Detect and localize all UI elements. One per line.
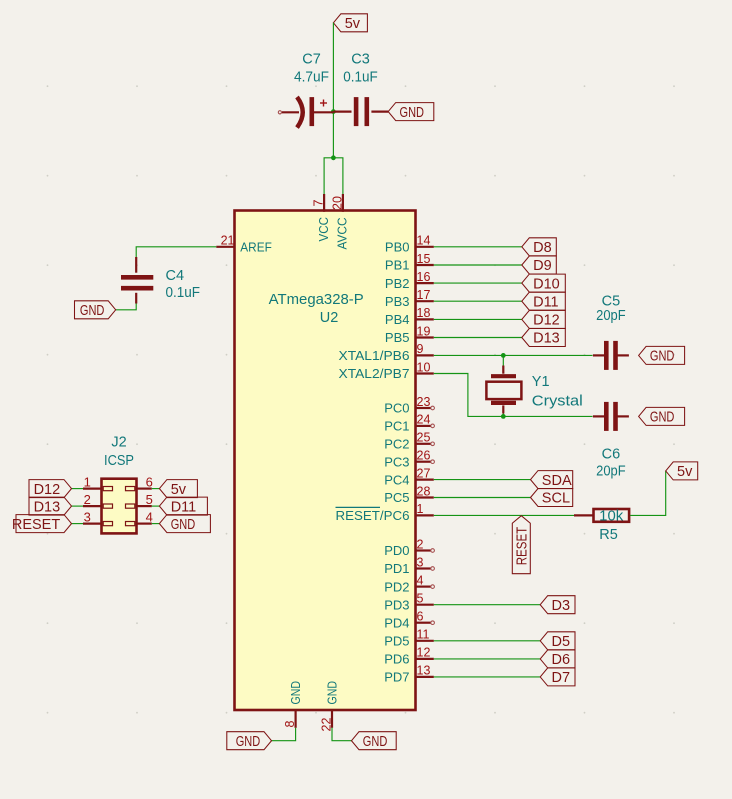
- svg-text:GND: GND: [324, 681, 339, 705]
- svg-text:25: 25: [417, 431, 431, 445]
- svg-text:18: 18: [417, 306, 431, 320]
- wire PB0 to D8: [434, 246, 522, 248]
- svg-text:SDA: SDA: [542, 473, 572, 489]
- global label D8: [522, 238, 557, 256]
- svg-text:GND: GND: [363, 734, 388, 750]
- svg-text:D5: D5: [552, 634, 571, 650]
- pin 12 PD6: [384, 646, 434, 667]
- wire XTAL1 to C5: [434, 354, 593, 356]
- svg-text:5: 5: [417, 592, 424, 606]
- svg-text:8: 8: [283, 721, 297, 728]
- pin 19 PB5: [385, 324, 434, 345]
- svg-text:5v: 5v: [677, 464, 693, 480]
- svg-text:1: 1: [417, 502, 424, 516]
- wire D7: [434, 676, 540, 678]
- svg-text:10: 10: [417, 360, 431, 374]
- pin 18 PB4: [385, 306, 434, 327]
- svg-text:AVCC: AVCC: [335, 218, 350, 250]
- svg-text:0.1uF: 0.1uF: [343, 70, 378, 86]
- global label SCL: [531, 489, 573, 507]
- svg-text:D6: D6: [552, 652, 571, 668]
- IC U2 ATmega328-P body: [235, 211, 416, 711]
- junction XTAL1/crystal: [501, 353, 506, 358]
- wire AREF to C4: [136, 247, 216, 259]
- svg-text:5: 5: [146, 492, 153, 507]
- wire to AVCC pin 20: [333, 158, 343, 194]
- svg-text:Y1: Y1: [532, 374, 550, 390]
- wire D13 to J2 pin2: [72, 505, 84, 507]
- global label D7: [540, 668, 575, 686]
- svg-text:GND: GND: [650, 349, 675, 365]
- pin 13 PD7: [384, 664, 434, 685]
- wire crystal to XTAL2 net: [502, 414, 504, 417]
- wire to VCC pin 7: [324, 158, 333, 194]
- svg-text:GND: GND: [288, 681, 303, 705]
- pin 21 AREF stub: [216, 246, 234, 248]
- svg-text:ATmega328-P: ATmega328-P: [269, 292, 364, 308]
- svg-text:PC1: PC1: [384, 419, 409, 434]
- wire PB4 to D12: [434, 318, 522, 320]
- svg-text:D9: D9: [533, 258, 552, 274]
- wire PC4 to SDA: [434, 479, 531, 481]
- svg-text:PB1: PB1: [385, 258, 410, 273]
- pin 17 PB3: [385, 288, 434, 309]
- pin 23 PC0: [384, 395, 434, 416]
- svg-text:11: 11: [417, 628, 430, 642]
- capacitor C4 0.1uF: [121, 257, 200, 304]
- crystal Y1: [486, 366, 582, 414]
- svg-text:PB2: PB2: [385, 276, 410, 291]
- global label D13: [522, 329, 566, 347]
- svg-text:PD6: PD6: [384, 652, 409, 667]
- svg-text:D11: D11: [171, 499, 197, 515]
- svg-text:C4: C4: [166, 268, 185, 284]
- svg-text:PD1: PD1: [384, 561, 409, 576]
- svg-text:AREF: AREF: [240, 239, 272, 254]
- svg-text:PD7: PD7: [384, 670, 409, 685]
- wire D6: [434, 658, 540, 660]
- svg-text:PD5: PD5: [384, 634, 409, 649]
- svg-text:15: 15: [417, 252, 431, 266]
- global label RESET (J2): [12, 515, 72, 533]
- global label D10: [522, 274, 566, 292]
- svg-text:PC0: PC0: [384, 401, 409, 416]
- svg-text:C3: C3: [351, 52, 370, 68]
- global label 5v (J2): [159, 480, 197, 498]
- svg-text:PB0: PB0: [385, 240, 410, 255]
- wire R5 to 5v: [630, 471, 666, 516]
- svg-text:22: 22: [319, 718, 333, 732]
- capacitor C5 20pF: [593, 293, 629, 370]
- svg-text:4: 4: [146, 509, 153, 524]
- pin 5 PD3: [384, 592, 434, 613]
- svg-text:2: 2: [417, 537, 424, 551]
- svg-text:D8: D8: [533, 240, 552, 256]
- global label D9: [522, 256, 557, 274]
- svg-text:PC4: PC4: [384, 472, 409, 487]
- pin 8 GND stub: [295, 710, 297, 728]
- svg-text:1: 1: [84, 474, 91, 489]
- pin 27 PC4: [384, 466, 434, 487]
- svg-text:PD4: PD4: [384, 615, 409, 630]
- svg-text:ICSP: ICSP: [104, 453, 134, 469]
- pin 26 PC3: [384, 449, 434, 470]
- svg-text:14: 14: [417, 234, 431, 248]
- svg-text:24: 24: [417, 413, 431, 427]
- junction XTAL2/crystal: [501, 414, 506, 419]
- global label 5v (top power): [333, 14, 367, 32]
- wire PB3 to D11: [434, 300, 522, 302]
- global label SDA: [531, 471, 573, 489]
- svg-text:27: 27: [417, 466, 431, 480]
- pin 6 PD4: [384, 610, 434, 631]
- capacitor C7 4.7uF (polarized): [278, 52, 333, 128]
- global label D12 (J2): [29, 480, 72, 498]
- svg-text:10k: 10k: [599, 508, 624, 524]
- global label D5: [540, 632, 575, 650]
- global label D3: [540, 596, 575, 614]
- pin 25 PC2: [384, 431, 434, 452]
- wire J2 pin4 to GND: [152, 523, 160, 525]
- pin 10 XTAL2/PB7: [339, 360, 434, 381]
- svg-text:GND: GND: [236, 734, 261, 750]
- wire C4 to GND: [116, 304, 137, 310]
- svg-text:PB3: PB3: [385, 294, 410, 309]
- pin 3 PD1: [384, 555, 434, 576]
- wire pin8 to GND: [272, 728, 296, 741]
- resistor R5 10k: [574, 508, 629, 543]
- svg-text:D12: D12: [34, 482, 61, 498]
- svg-text:D10: D10: [533, 276, 560, 292]
- pin 4 PD2: [384, 573, 434, 594]
- svg-text:2: 2: [84, 492, 91, 507]
- junction at decoupling caps: [331, 109, 336, 114]
- svg-text:0.1uF: 0.1uF: [166, 285, 201, 301]
- svg-text:13: 13: [417, 664, 431, 678]
- pin 7 VCC stub: [323, 194, 325, 212]
- pin 2 PD0: [384, 537, 434, 558]
- pin 15 PB1: [385, 252, 434, 273]
- svg-text:D7: D7: [552, 670, 571, 686]
- svg-text:PC3: PC3: [384, 454, 409, 469]
- connector J2 ICSP body and pins: [83, 479, 152, 534]
- svg-text:Crystal: Crystal: [532, 394, 583, 410]
- svg-text:3: 3: [84, 509, 91, 524]
- svg-text:XTAL1/PB6: XTAL1/PB6: [339, 348, 410, 363]
- capacitor C6 20pF: [593, 402, 629, 479]
- global label GND (at C6): [639, 407, 685, 425]
- wire junction down to crystal: [502, 355, 504, 365]
- global label D12: [522, 310, 566, 328]
- svg-text:20pF: 20pF: [596, 308, 626, 324]
- pin 14 PB0: [385, 234, 434, 255]
- svg-text:SCL: SCL: [542, 491, 570, 507]
- svg-text:19: 19: [417, 324, 431, 338]
- svg-text:5v: 5v: [345, 16, 361, 32]
- wire RESET to R5: [434, 514, 574, 516]
- svg-text:21: 21: [221, 233, 235, 247]
- pin 11 PD5: [384, 628, 434, 649]
- svg-text:PC2: PC2: [384, 437, 409, 452]
- global label GND (J2): [159, 515, 210, 533]
- svg-text:9: 9: [417, 342, 424, 356]
- global label D13 (J2): [29, 497, 72, 515]
- pin 1 RESET/PC6: [336, 502, 434, 523]
- svg-text:D3: D3: [552, 598, 571, 614]
- pin 22 GND stub: [331, 710, 333, 728]
- svg-text:GND: GND: [400, 105, 425, 121]
- wire PC5 to SCL: [434, 497, 531, 499]
- global label GND (top): [388, 103, 434, 121]
- global label GND (at C5): [639, 346, 685, 364]
- svg-text:D12: D12: [533, 313, 560, 329]
- global label 5v (right): [666, 462, 698, 480]
- junction at VCC/AVCC split: [331, 155, 336, 160]
- svg-text:GND: GND: [80, 303, 105, 319]
- wire PB2 to D10: [434, 282, 522, 284]
- svg-text:U2: U2: [320, 310, 339, 326]
- svg-text:4: 4: [417, 573, 424, 587]
- wire 5v rail vertical: [332, 23, 334, 158]
- svg-text:PB4: PB4: [385, 312, 410, 327]
- svg-text:23: 23: [417, 395, 431, 409]
- wire J2 pin6 to 5v: [152, 488, 160, 490]
- global label RESET (vertical): [512, 516, 530, 574]
- global label GND (bottom right): [352, 732, 397, 750]
- wire PB5 to D13: [434, 337, 522, 339]
- wire PB1 to D9: [434, 264, 522, 266]
- global label GND (bottom left): [227, 732, 272, 750]
- svg-text:VCC: VCC: [316, 217, 331, 242]
- svg-text:4.7uF: 4.7uF: [294, 70, 329, 86]
- wire J2 pin5 to D11: [152, 505, 160, 507]
- pin 20 AVCC stub: [342, 194, 344, 212]
- svg-text:XTAL2/PB7: XTAL2/PB7: [339, 366, 410, 381]
- svg-text:6: 6: [146, 474, 153, 489]
- global label GND (at C4): [75, 301, 116, 319]
- svg-text:D13: D13: [533, 331, 560, 347]
- svg-text:12: 12: [417, 646, 431, 660]
- svg-text:PD0: PD0: [384, 543, 409, 558]
- svg-text:PB5: PB5: [385, 330, 410, 345]
- svg-text:20pF: 20pF: [596, 463, 626, 479]
- wire pin22 to GND: [332, 728, 352, 741]
- pin 9 XTAL1/PB6: [339, 342, 434, 363]
- svg-text:RESET: RESET: [12, 517, 60, 533]
- svg-text:R5: R5: [599, 527, 618, 543]
- svg-text:GND: GND: [171, 517, 196, 533]
- svg-text:RESET/PC6: RESET/PC6: [336, 508, 410, 523]
- svg-text:16: 16: [417, 270, 431, 284]
- pin 24 PC1: [384, 413, 434, 434]
- svg-text:C6: C6: [602, 446, 621, 462]
- svg-text:PD2: PD2: [384, 579, 409, 594]
- global label D6: [540, 650, 575, 668]
- svg-text:28: 28: [417, 484, 431, 498]
- pin 28 PC5: [384, 484, 434, 505]
- global label D11: [522, 292, 566, 310]
- capacitor C3 0.1uF: [333, 52, 388, 127]
- svg-text:6: 6: [417, 610, 424, 624]
- svg-text:26: 26: [417, 449, 431, 463]
- svg-text:PD3: PD3: [384, 597, 409, 612]
- wire D5: [434, 640, 540, 642]
- pin 16 PB2: [385, 270, 434, 291]
- global label D11 (J2): [159, 497, 207, 515]
- svg-text:20: 20: [330, 196, 344, 210]
- svg-text:3: 3: [417, 555, 424, 569]
- svg-text:RESET: RESET: [514, 527, 530, 566]
- svg-text:GND: GND: [650, 410, 675, 426]
- svg-text:5v: 5v: [171, 482, 187, 498]
- svg-text:J2: J2: [111, 435, 126, 451]
- svg-text:PC5: PC5: [384, 490, 409, 505]
- svg-text:17: 17: [417, 288, 431, 302]
- wire D12 to J2 pin1: [72, 488, 84, 490]
- svg-text:C7: C7: [302, 52, 321, 68]
- wire RESET to J2 pin3: [72, 523, 84, 525]
- svg-text:7: 7: [312, 200, 326, 207]
- wire XTAL2 to C6: [434, 374, 593, 417]
- wire D3: [434, 604, 540, 606]
- svg-text:D11: D11: [533, 294, 559, 310]
- svg-text:D13: D13: [34, 499, 61, 515]
